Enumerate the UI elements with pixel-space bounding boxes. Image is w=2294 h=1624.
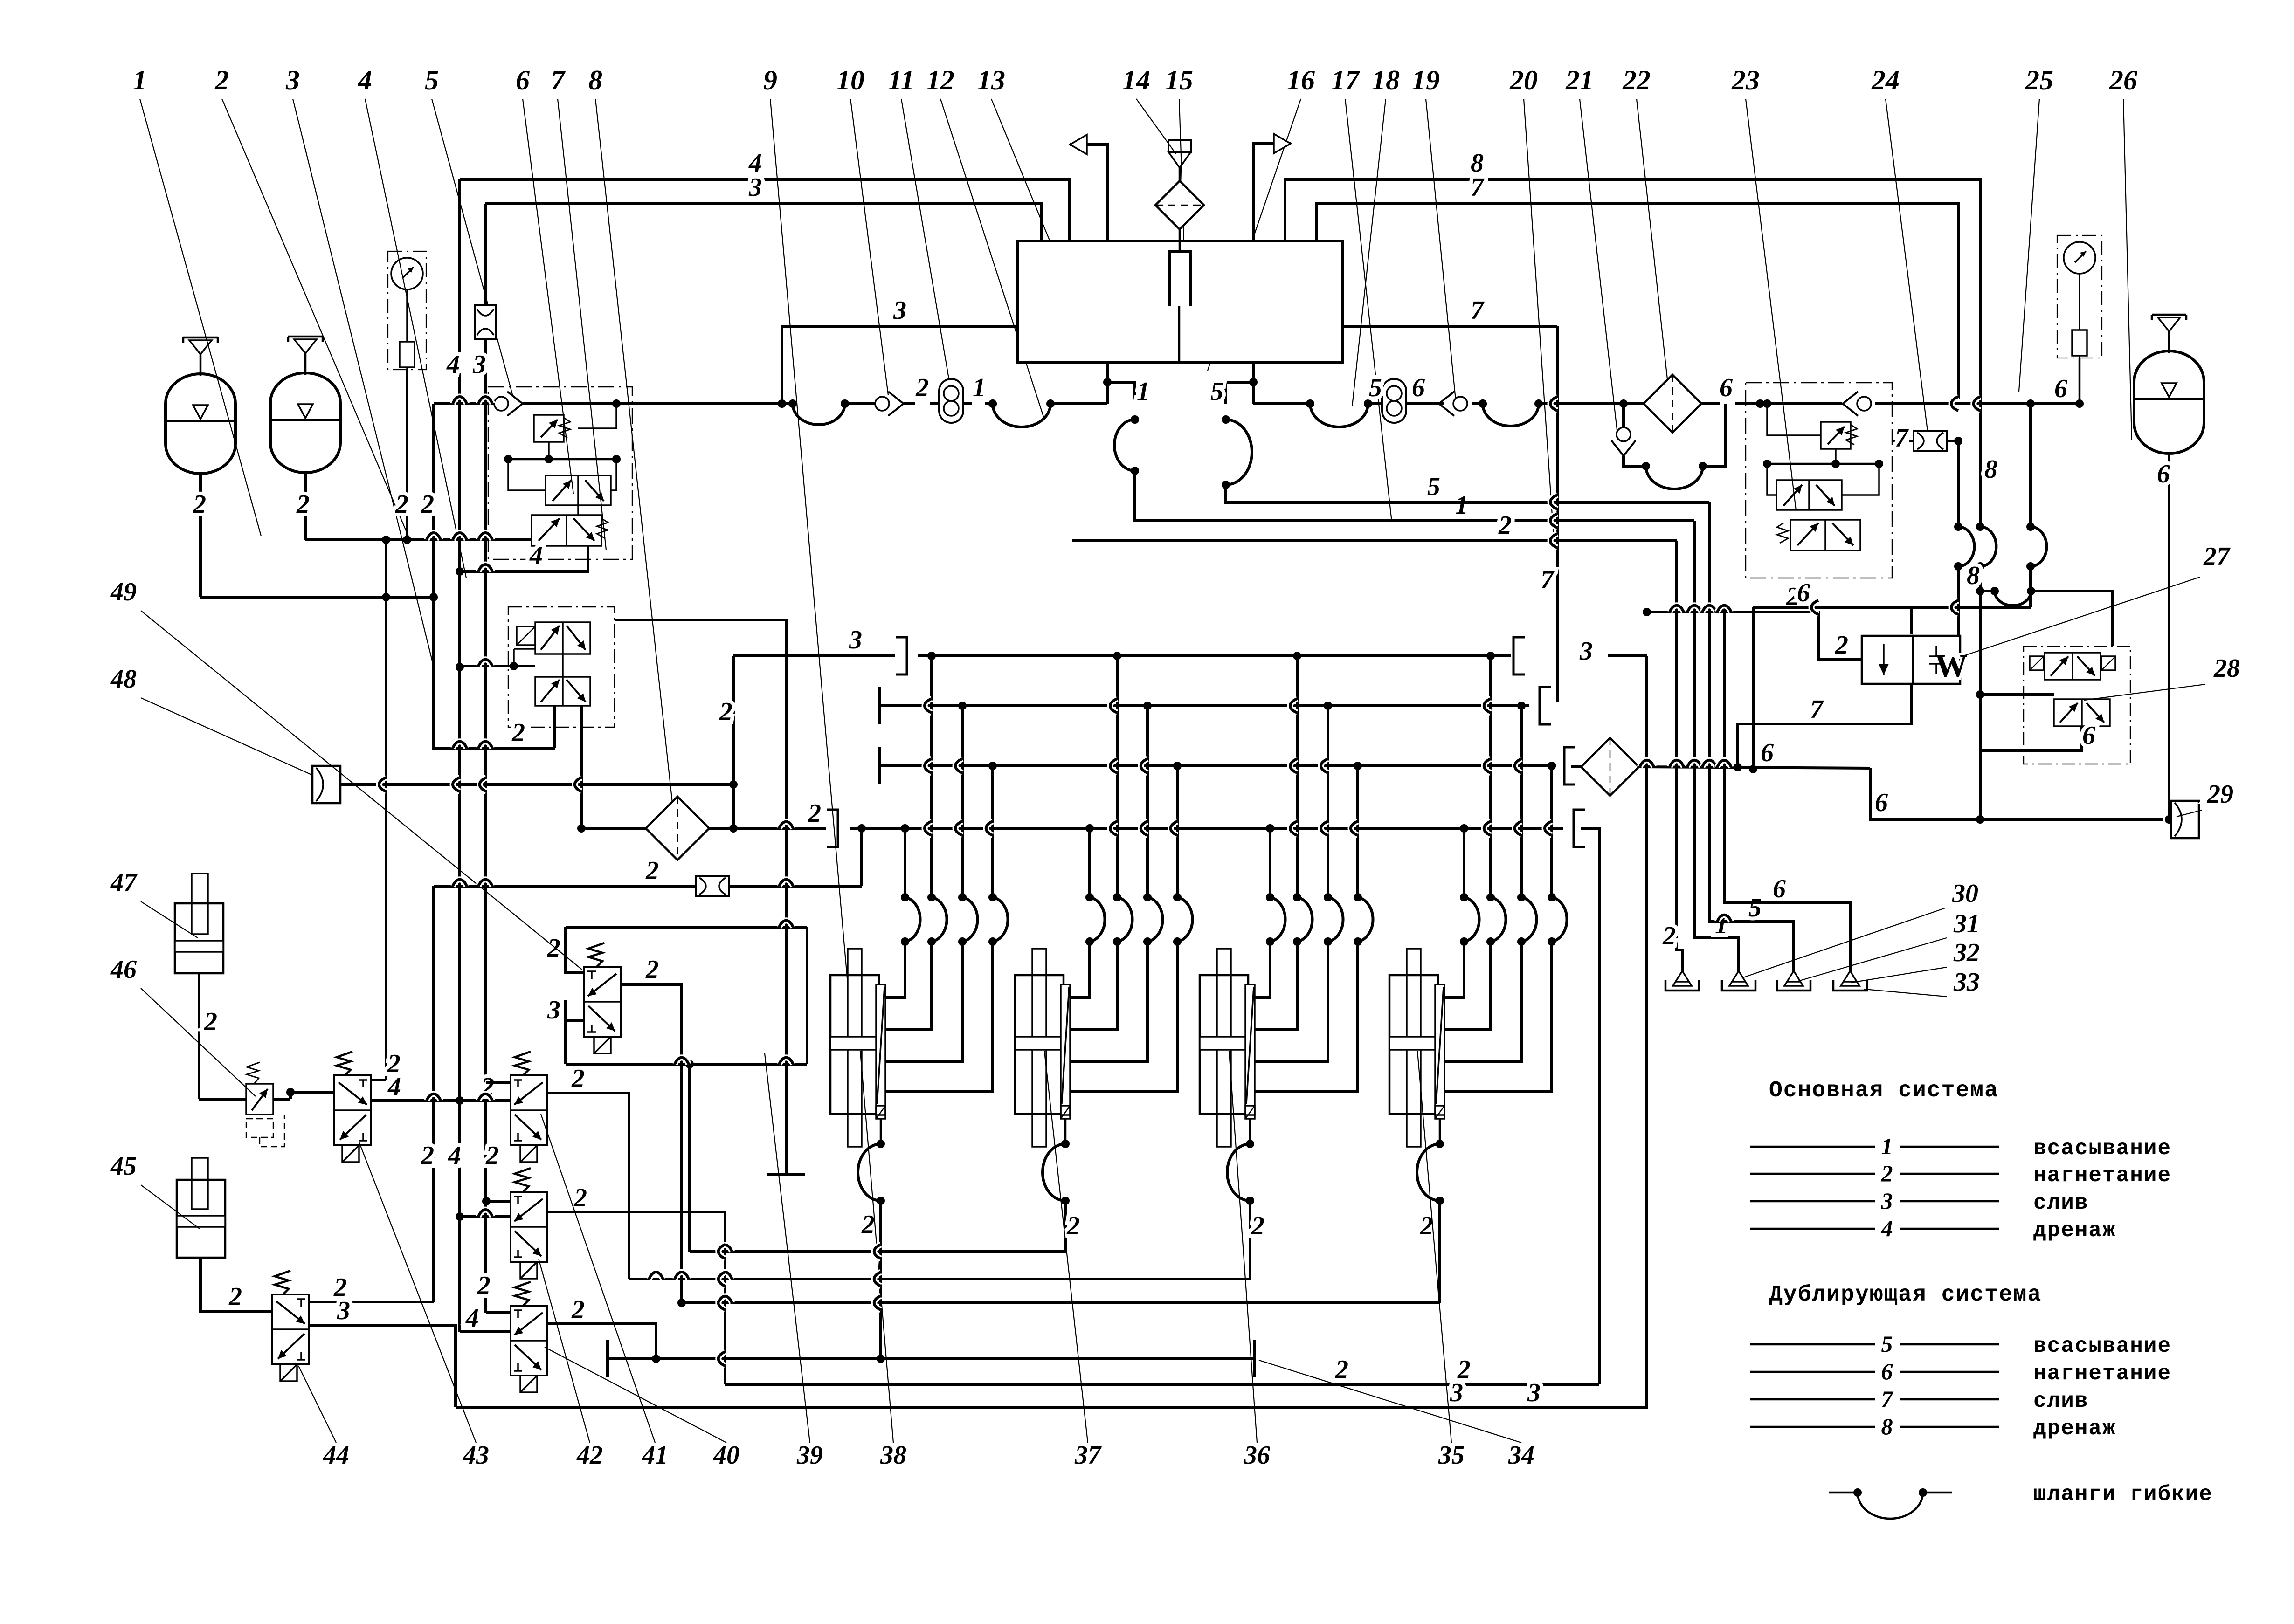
svg-text:7: 7 xyxy=(1895,424,1909,453)
wire to filter xyxy=(1624,402,1644,405)
svg-text:31: 31 xyxy=(1953,909,1980,938)
leader 44 xyxy=(298,1366,336,1443)
line 8 h xyxy=(1967,561,2112,646)
wire 8 down xyxy=(1976,399,1997,595)
svg-text:слив: слив xyxy=(2033,1191,2088,1215)
svg-text:2: 2 xyxy=(204,1007,217,1036)
relief valve xyxy=(534,404,616,459)
drain port 30 xyxy=(1665,971,1699,991)
svg-text:2: 2 xyxy=(511,718,525,747)
svg-text:3: 3 xyxy=(1881,1188,1893,1214)
g2 line xyxy=(690,1201,1080,1252)
cylinder 47 xyxy=(175,874,223,973)
svg-text:9: 9 xyxy=(763,65,777,96)
check valve 23a xyxy=(1843,392,1871,416)
droppers group 4 xyxy=(1464,656,1552,897)
svg-text:24: 24 xyxy=(1871,65,1900,96)
hose 12 xyxy=(988,399,1055,427)
wire 49 down xyxy=(580,706,583,828)
port 29 xyxy=(2171,801,2199,838)
wire f8c xyxy=(733,827,797,830)
wire gauge25 xyxy=(2079,358,2081,404)
wire 49 out2 xyxy=(511,706,555,748)
svg-text:8: 8 xyxy=(1967,561,1980,590)
svg-text:39: 39 xyxy=(796,1441,823,1470)
wire 42 mid xyxy=(460,1215,511,1218)
main bus xyxy=(434,402,492,405)
wire W top6 xyxy=(1911,634,1912,636)
wire 7 down xyxy=(1957,441,1960,636)
svg-text:25: 25 xyxy=(2025,65,2053,96)
svg-text:4: 4 xyxy=(446,350,460,379)
droppers group 3 xyxy=(1270,656,1358,897)
svg-text:1: 1 xyxy=(1455,491,1468,520)
valve 28a xyxy=(2030,653,2115,680)
svg-text:1: 1 xyxy=(133,65,147,96)
bus L1 xyxy=(305,536,532,544)
svg-text:2: 2 xyxy=(421,1141,434,1170)
svg-text:3: 3 xyxy=(1579,637,1593,666)
cyl bottom hose 35 xyxy=(1417,1119,1444,1205)
crossing hops xyxy=(379,397,1980,1366)
svg-text:Основная система: Основная система xyxy=(1769,1078,1999,1103)
svg-text:2: 2 xyxy=(571,1064,585,1093)
wire 6 down2 xyxy=(1749,607,1757,773)
svg-text:2: 2 xyxy=(1335,1355,1348,1384)
svg-text:23: 23 xyxy=(1731,65,1760,96)
leader lines top xyxy=(140,99,2132,1058)
drain port 33 xyxy=(1833,971,1867,991)
leader 47 xyxy=(141,901,198,938)
W box 27 xyxy=(1862,636,1968,684)
leader 34 xyxy=(1259,1360,1521,1443)
svg-text:43: 43 xyxy=(463,1441,489,1470)
wire after filter xyxy=(1701,373,1764,408)
droppers group 2 xyxy=(1090,656,1177,897)
restrictor 2 xyxy=(696,876,729,896)
svg-text:3: 3 xyxy=(893,296,906,325)
svg-text:1: 1 xyxy=(973,373,986,402)
line 7 restr xyxy=(1892,424,1909,453)
g1 line xyxy=(861,1201,881,1359)
trunk 986 xyxy=(446,179,464,1332)
svg-text:3: 3 xyxy=(285,65,300,96)
cylinder 45 xyxy=(177,1158,225,1258)
cyl wires 38 xyxy=(885,942,993,1092)
riser 2 (3596) xyxy=(1662,541,1682,972)
filter 22 xyxy=(1644,375,1701,433)
line 6 W xyxy=(1753,578,2031,634)
svg-text:слив: слив xyxy=(2033,1389,2088,1413)
line 8 top xyxy=(1285,149,1980,399)
svg-text:17: 17 xyxy=(1331,65,1360,96)
line 3 mid xyxy=(778,296,1018,408)
leader 32 xyxy=(1851,967,1947,983)
svg-text:шланги гибкие: шланги гибкие xyxy=(2033,1482,2213,1507)
svg-text:6: 6 xyxy=(1412,373,1425,402)
svg-text:3: 3 xyxy=(748,173,762,202)
svg-text:5: 5 xyxy=(1748,894,1762,922)
valve 41 xyxy=(511,1052,547,1162)
leader 46 xyxy=(141,988,256,1096)
legend hose xyxy=(1829,1482,2213,1519)
svg-text:1: 1 xyxy=(1881,1133,1893,1159)
svg-text:8: 8 xyxy=(1984,455,1997,484)
line 7 top xyxy=(1316,173,1958,399)
svg-text:2: 2 xyxy=(808,799,821,828)
trunk 930 low xyxy=(421,886,434,1302)
line 1 mid xyxy=(1135,471,1694,521)
wire breather xyxy=(1179,229,1181,252)
svg-text:6: 6 xyxy=(1761,738,1774,767)
wire gauge xyxy=(395,370,408,540)
wire W bot7 xyxy=(1738,684,1912,767)
svg-text:Дублирующая система: Дублирующая система xyxy=(1769,1282,2042,1307)
svg-text:2: 2 xyxy=(915,373,929,402)
svg-text:2: 2 xyxy=(477,1271,491,1300)
pressure gauge 3 xyxy=(388,251,426,370)
legend title 1 xyxy=(1769,1078,1999,1103)
wire 41 top xyxy=(486,1081,511,1084)
wire 39 low xyxy=(547,996,584,1025)
labels 30-33 xyxy=(1952,879,1980,997)
wire 43 in xyxy=(286,1088,335,1096)
svg-text:40: 40 xyxy=(713,1441,739,1470)
svg-text:2: 2 xyxy=(645,955,659,984)
bus seg1 xyxy=(632,402,793,405)
svg-text:5: 5 xyxy=(1427,472,1440,501)
svg-text:4: 4 xyxy=(387,1073,401,1101)
wire f8b xyxy=(709,824,738,833)
bus H2 xyxy=(682,1301,1440,1304)
cyl bottom hose 38 xyxy=(858,1119,885,1205)
label 28 xyxy=(2213,654,2240,683)
svg-text:14: 14 xyxy=(1122,65,1150,96)
g3 line xyxy=(629,1201,1264,1279)
bus in block xyxy=(523,399,632,408)
restrictor 5 xyxy=(475,305,496,339)
hoses right xyxy=(1954,523,2046,571)
svg-text:33: 33 xyxy=(1953,968,1980,997)
svg-text:7: 7 xyxy=(1471,173,1485,202)
leader 40 xyxy=(545,1347,726,1443)
label 29 xyxy=(2207,780,2233,809)
svg-text:7: 7 xyxy=(1541,565,1555,594)
svg-text:2: 2 xyxy=(1835,631,1848,660)
valve 40 xyxy=(511,1282,547,1392)
leader 37 xyxy=(1044,1051,1088,1443)
svg-text:35: 35 xyxy=(1438,1441,1465,1470)
svg-text:2: 2 xyxy=(861,1210,875,1239)
svg-text:3: 3 xyxy=(547,996,560,1025)
leader 29 xyxy=(2177,810,2202,817)
svg-text:2: 2 xyxy=(1662,922,1676,950)
label 47 xyxy=(110,868,138,897)
svg-text:21: 21 xyxy=(1565,65,1594,96)
vent arrow left xyxy=(1070,135,1107,241)
bus D (2) xyxy=(850,810,1599,1384)
valve 43 xyxy=(334,1052,371,1162)
svg-text:7: 7 xyxy=(1881,1386,1894,1412)
hoses group 1 xyxy=(901,893,1008,946)
svg-text:12: 12 xyxy=(926,65,954,96)
wire accum1 xyxy=(193,474,206,597)
valve 23d xyxy=(1777,520,1860,551)
valve 42 xyxy=(511,1168,547,1279)
wire 44 out2 xyxy=(308,1273,434,1302)
label 46 xyxy=(110,955,137,984)
line 3 top xyxy=(485,173,1041,268)
svg-text:15: 15 xyxy=(1165,65,1193,96)
hose p2 xyxy=(1306,399,1372,427)
wire r2b xyxy=(729,885,862,888)
svg-text:5: 5 xyxy=(1210,377,1223,406)
wire 6 drop xyxy=(1870,768,2163,819)
svg-text:4: 4 xyxy=(529,541,543,570)
svg-text:2: 2 xyxy=(645,856,659,885)
block 28 frame xyxy=(2024,647,2130,764)
wire 42 out xyxy=(547,1184,725,1384)
bus Y5 (2) xyxy=(725,1355,1599,1384)
wire 6 east xyxy=(1639,738,1870,771)
valve 23c xyxy=(1767,464,1879,510)
bus C xyxy=(880,747,1575,784)
svg-text:5: 5 xyxy=(425,65,439,96)
cylinder 35 xyxy=(1389,949,1444,1147)
svg-text:32: 32 xyxy=(1953,938,1980,967)
leader 41 xyxy=(541,1114,655,1443)
svg-text:34: 34 xyxy=(1508,1441,1534,1470)
hoses group 4 xyxy=(1460,893,1567,946)
block bus2 xyxy=(504,455,621,463)
svg-text:2: 2 xyxy=(1881,1160,1893,1186)
legend system 2 xyxy=(1750,1331,2171,1441)
wire 828 xyxy=(385,540,387,597)
label 45 xyxy=(110,1152,137,1181)
vent arrow right xyxy=(1253,134,1291,241)
svg-text:4: 4 xyxy=(1881,1215,1893,1241)
leader 48 xyxy=(141,698,311,775)
svg-text:22: 22 xyxy=(1622,65,1651,96)
svg-text:всасывание: всасывание xyxy=(2033,1136,2171,1161)
wire g2 riser xyxy=(688,1064,691,1252)
svg-text:6: 6 xyxy=(1797,578,1810,607)
bus A (3) xyxy=(733,626,1525,674)
svg-text:8: 8 xyxy=(1881,1413,1893,1439)
svg-text:2: 2 xyxy=(228,1282,242,1311)
line 7 mid xyxy=(1342,296,1557,326)
valve block 49 frame xyxy=(508,607,615,727)
cyl wires 36 xyxy=(1255,942,1358,1092)
hoses group 2 xyxy=(1085,893,1193,946)
valve 6c xyxy=(508,459,616,505)
leader 49 xyxy=(141,611,582,970)
wire accum26 xyxy=(2157,454,2173,824)
drain port 31 xyxy=(1722,971,1755,991)
svg-text:2: 2 xyxy=(296,490,310,519)
svg-text:2: 2 xyxy=(573,1184,587,1212)
wire 42 top xyxy=(486,1200,511,1203)
wire 28 mid xyxy=(1980,693,2054,696)
svg-text:дренаж: дренаж xyxy=(2033,1417,2116,1441)
svg-text:дренаж: дренаж xyxy=(2033,1218,2116,1243)
bus H3 xyxy=(608,1340,1254,1377)
valve 28b xyxy=(2054,699,2110,726)
line 7 vert xyxy=(1541,326,1557,702)
wire 40 out xyxy=(547,1295,660,1363)
svg-text:47: 47 xyxy=(110,868,138,897)
accumulator 1 xyxy=(166,337,235,474)
svg-text:нагнетание: нагнетание xyxy=(2033,1163,2171,1188)
drain port 32 xyxy=(1777,971,1810,991)
trunk 1573 xyxy=(719,656,733,828)
svg-text:4: 4 xyxy=(358,65,372,96)
svg-text:44: 44 xyxy=(323,1441,349,1470)
cyl bottom hose 37 xyxy=(1043,1119,1070,1205)
leader 45 xyxy=(141,1185,200,1229)
riser 6 (3698) xyxy=(1720,603,1850,972)
line 2 mid xyxy=(1072,511,1677,541)
pump 18 xyxy=(1368,373,1444,423)
svg-text:6: 6 xyxy=(1720,373,1733,402)
cylinder 37 xyxy=(1015,949,1070,1147)
tank body xyxy=(1018,241,1343,363)
wire 28 top xyxy=(2112,646,2113,653)
main bus dub1 xyxy=(1253,402,1310,405)
breather cap 15 xyxy=(1168,140,1191,181)
wire 46 in xyxy=(199,1098,246,1101)
hoses group 3 xyxy=(1266,893,1373,946)
svg-text:5: 5 xyxy=(1369,373,1382,402)
svg-text:2: 2 xyxy=(395,490,408,519)
leader 43 xyxy=(359,1142,476,1443)
loop top xyxy=(566,926,807,929)
bus seg2 xyxy=(1050,402,1107,405)
leader 30 xyxy=(1742,908,1945,978)
accumulator 2 xyxy=(270,337,340,473)
svg-text:3: 3 xyxy=(849,626,862,654)
loop bottom xyxy=(566,1060,807,1068)
svg-text:7: 7 xyxy=(1810,695,1824,724)
svg-text:1: 1 xyxy=(1137,377,1150,406)
bypass 21 xyxy=(1624,404,1725,489)
check valve 21 xyxy=(1611,404,1636,456)
wire 48 line xyxy=(340,780,738,789)
svg-text:37: 37 xyxy=(1074,1441,1102,1470)
svg-text:11: 11 xyxy=(888,65,915,96)
droppers group 1 xyxy=(905,656,993,897)
restrictor 24 xyxy=(1909,431,1947,451)
valve 44 xyxy=(272,1271,309,1381)
trunk 1043 xyxy=(472,204,499,1313)
wire 39 out xyxy=(621,955,686,1307)
pump 11 xyxy=(930,379,972,423)
leader 28 xyxy=(2084,684,2205,700)
busD bracket xyxy=(797,799,838,847)
label 49 xyxy=(110,578,137,606)
wire bus dub2 xyxy=(1539,399,1628,408)
svg-text:45: 45 xyxy=(110,1152,137,1181)
wire 40 mid xyxy=(460,1304,511,1333)
svg-text:10: 10 xyxy=(836,65,864,96)
node f8 xyxy=(577,824,586,833)
pressure gauge 25 xyxy=(2057,235,2102,358)
svg-text:2: 2 xyxy=(421,490,434,519)
svg-text:42: 42 xyxy=(576,1441,603,1470)
block 23 frame xyxy=(1746,383,1892,578)
bus L2 xyxy=(200,593,438,601)
svg-text:20: 20 xyxy=(1509,65,1538,96)
svg-text:2: 2 xyxy=(1498,511,1512,540)
tank divider xyxy=(1178,306,1181,363)
svg-text:8: 8 xyxy=(588,65,602,96)
check valve 19 xyxy=(1439,392,1467,416)
riser 5 (3666) xyxy=(1709,502,1794,972)
label 2 pump xyxy=(915,373,929,402)
line 6 busC xyxy=(1571,765,1583,768)
svg-text:30: 30 xyxy=(1952,879,1978,908)
legend title 2 xyxy=(1769,1282,2042,1307)
svg-text:19: 19 xyxy=(1412,65,1440,96)
leader 38 xyxy=(860,1051,893,1443)
node 49 xyxy=(510,662,518,670)
index labels 1-26 xyxy=(133,65,2137,96)
valve 49b xyxy=(535,677,590,706)
valve block frame xyxy=(488,387,632,559)
svg-text:4: 4 xyxy=(448,1141,461,1170)
line 4 top xyxy=(460,149,1070,268)
trunk 826 xyxy=(385,597,387,1080)
svg-text:6: 6 xyxy=(2082,721,2095,750)
svg-text:6: 6 xyxy=(1881,1358,1893,1384)
svg-text:всасывание: всасывание xyxy=(2033,1334,2171,1358)
svg-text:6: 6 xyxy=(2054,374,2067,403)
wire 49 feed xyxy=(460,665,535,667)
wire 28 out6 xyxy=(1976,721,2095,824)
svg-text:2: 2 xyxy=(1251,1211,1264,1240)
leader 27 xyxy=(1962,577,2200,656)
hose 19 xyxy=(1479,399,1543,426)
tank port main xyxy=(1103,363,1150,406)
wire 39 top xyxy=(547,927,584,973)
svg-text:27: 27 xyxy=(2203,542,2231,571)
riser Y6 xyxy=(1645,656,1648,1407)
bus Y6 (3) xyxy=(456,1378,1648,1407)
accumulator 26 xyxy=(2134,315,2204,454)
svg-text:нагнетание: нагнетание xyxy=(2033,1362,2171,1386)
wire 40 top xyxy=(477,1271,511,1313)
legend system 1 xyxy=(1750,1133,2171,1243)
labels bottom xyxy=(323,1441,1534,1470)
wire 44 out3 xyxy=(308,1296,456,1407)
line 5 mid xyxy=(1226,472,1709,502)
wire 8 mid xyxy=(1976,591,1984,750)
tank port dub xyxy=(1210,363,1258,406)
wire 47 xyxy=(199,973,217,1099)
leader 36 xyxy=(1229,1051,1257,1443)
svg-text:49: 49 xyxy=(110,578,137,606)
svg-text:2: 2 xyxy=(547,934,560,963)
svg-text:6: 6 xyxy=(1773,874,1786,903)
loop left xyxy=(564,1021,567,1064)
svg-text:3: 3 xyxy=(472,350,486,379)
wire 49 inner xyxy=(514,649,563,677)
svg-text:2: 2 xyxy=(719,697,732,726)
label 48 xyxy=(110,665,137,694)
svg-text:2: 2 xyxy=(1066,1211,1080,1240)
svg-text:W: W xyxy=(1935,648,1968,684)
valve 6d xyxy=(532,505,608,546)
